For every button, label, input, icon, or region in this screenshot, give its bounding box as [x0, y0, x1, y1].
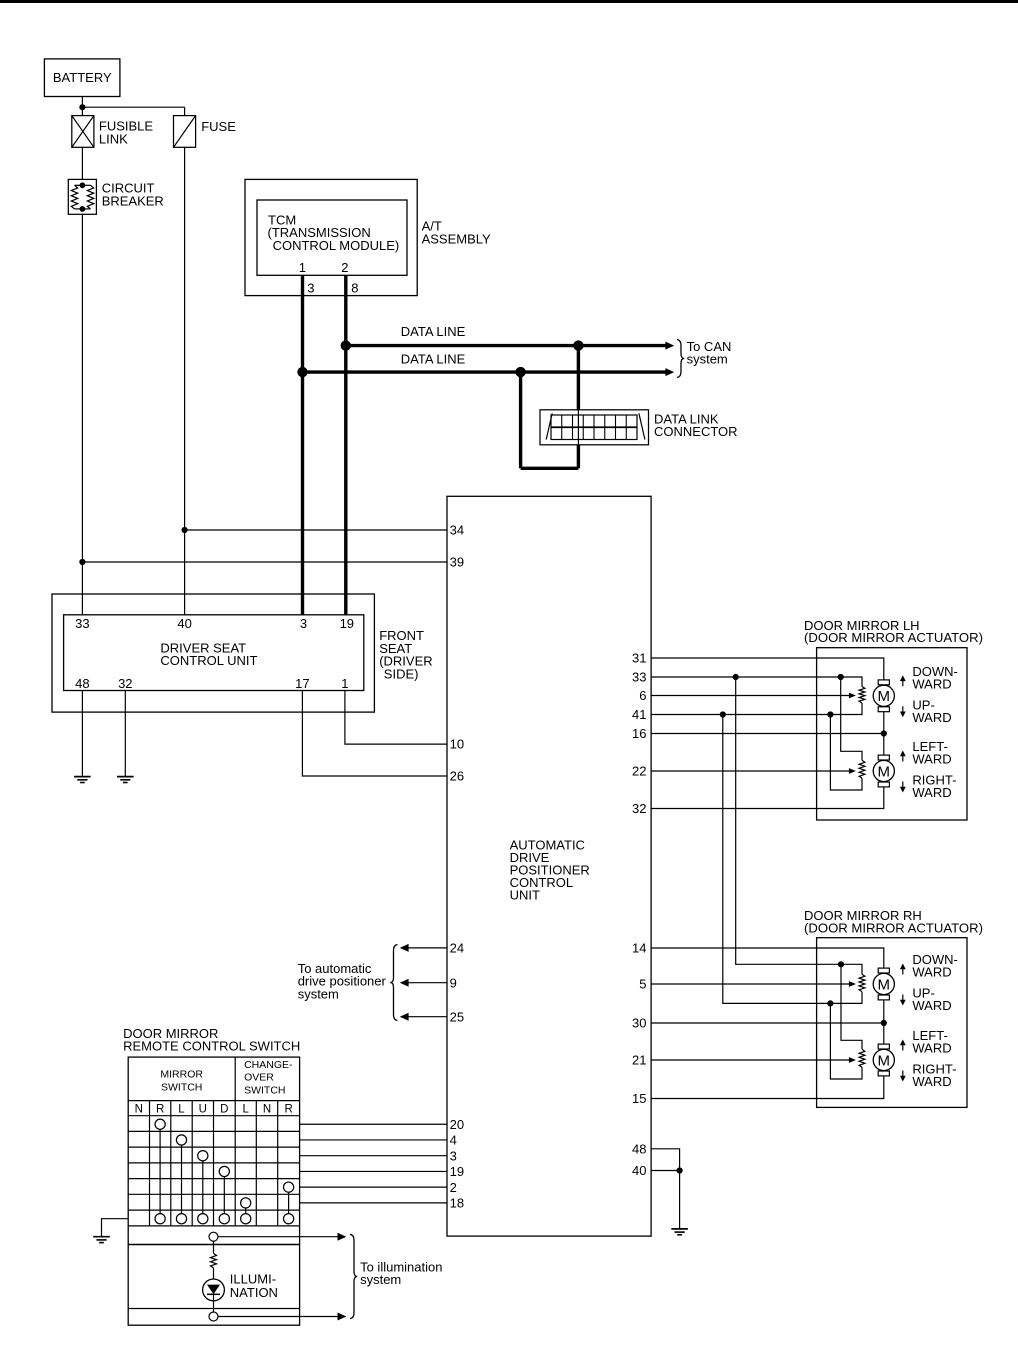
wire junction to fuse branch [82, 106, 184, 108]
svg-text:19: 19 [340, 616, 354, 631]
svg-text:R: R [156, 1104, 164, 1116]
wire switch row to ADP pin 2 [300, 1186, 447, 1188]
svg-text:BATTERY: BATTERY [53, 70, 112, 85]
TCM box [257, 200, 407, 275]
wire branch to RH resistor2 top [841, 964, 862, 1049]
svg-text:48: 48 [632, 1141, 646, 1156]
wire RH motor bus [883, 973, 885, 1023]
wire illumination top to resistor [213, 1241, 215, 1253]
switch contact R1 upper [155, 1119, 165, 1129]
door mirror remote control switch box [128, 1057, 299, 1325]
svg-text:BREAKER: BREAKER [102, 193, 164, 208]
switch header divider [234, 1057, 236, 1101]
wire switch row to ADP pin 4 [300, 1139, 447, 1141]
switch illumination bottom line [128, 1308, 299, 1310]
wire 41 branch to LH resistor2 bottom [830, 715, 862, 791]
svg-text:1: 1 [299, 260, 306, 275]
wire branch down to fuse [184, 107, 186, 115]
ground seat 32 [117, 776, 134, 778]
data line CAN-H wire [346, 344, 666, 347]
svg-text:9: 9 [450, 975, 457, 990]
wire ADP 21 wiper arrow [651, 1059, 849, 1061]
page top black bar [0, 0, 1018, 3]
to automatic drive positioner system brace [390, 945, 397, 1021]
switch contact R2 common [284, 1214, 294, 1224]
svg-text:1: 1 [341, 676, 348, 691]
wire ADP 15 to RH motor 2 bottom [651, 1076, 884, 1099]
wire 41 branch down to RH resistor bottom [723, 715, 862, 1004]
wire switch row to ADP pin 3 [300, 1155, 447, 1157]
resistor RH vertical pot [859, 974, 865, 992]
circuit breaker CB [68, 179, 96, 214]
svg-text:WARD: WARD [912, 1041, 951, 1056]
svg-text:LINK: LINK [99, 131, 128, 146]
arrow UP-WARD down [902, 706, 904, 713]
wire branch to RH resistor2 bottom [830, 1003, 862, 1079]
switch contact column D1 wire [223, 1171, 225, 1218]
svg-text:N: N [263, 1104, 271, 1116]
svg-text:U: U [199, 1104, 207, 1116]
switch contact D1 upper [219, 1166, 229, 1176]
junction 33 branch to LH resistor 2 [838, 674, 844, 680]
svg-text:WARD: WARD [912, 998, 951, 1013]
svg-text:REMOTE CONTROL SWITCH: REMOTE CONTROL SWITCH [123, 1039, 300, 1054]
resistor LH horizontal pot [859, 760, 865, 778]
wire to illumination system bottom arrow [300, 1316, 338, 1318]
junction CAN-H at TCM [341, 340, 351, 350]
wire illumination bottom to edge [218, 1316, 300, 1318]
svg-text:19: 19 [450, 1164, 464, 1179]
svg-text:WARD: WARD [912, 677, 951, 692]
svg-text:32: 32 [118, 676, 132, 691]
wire fusible link to circuit breaker [81, 147, 83, 179]
svg-text:N: N [135, 1104, 143, 1116]
svg-text:system: system [687, 352, 728, 367]
switch contact U1 upper [198, 1151, 208, 1161]
wire ADP 48 to ground node [651, 1149, 680, 1171]
arrow DOWN-WARD up [902, 968, 904, 975]
junction CAN-L at TCM [297, 367, 307, 377]
wire ADP 41 to LH resistor bottom [651, 703, 862, 715]
arrow LEFT-WARD up [902, 755, 904, 762]
wire switch row to ADP pin 18 [300, 1202, 447, 1204]
motor LH vertical [878, 680, 889, 685]
wire seat pin 17 to ADP pin 26 [302, 691, 447, 777]
arrow RIGHT-WARD down [902, 782, 904, 789]
switch contact L2 common [241, 1214, 251, 1224]
to illumination system brace [350, 1234, 357, 1318]
fusible link FL [72, 116, 94, 148]
svg-text:31: 31 [632, 651, 646, 666]
svg-text:ASSEMBLY: ASSEMBLY [422, 231, 491, 246]
junction RH resistor2 bottom branch [827, 1000, 833, 1006]
resistor RH horizontal pot [859, 1049, 865, 1067]
resistor illumination [211, 1253, 217, 1268]
junction battery feed [79, 104, 85, 110]
illumination bottom terminal [209, 1312, 218, 1321]
svg-text:2: 2 [450, 1180, 457, 1195]
wire seat pin 32 to ground [124, 691, 126, 777]
svg-text:L: L [178, 1104, 185, 1116]
wire ADP 6 wiper arrow [651, 695, 849, 697]
svg-text:15: 15 [632, 1091, 646, 1106]
wire 33 branch down to RH resistor top [736, 677, 862, 974]
switch contact L1 upper [176, 1135, 186, 1145]
illumination top terminal [209, 1232, 218, 1241]
svg-text:16: 16 [632, 726, 646, 741]
wire seat pin 48 to ground [81, 691, 83, 777]
svg-text:30: 30 [632, 1016, 646, 1031]
wire seat pin 1 to ADP pin 10 [345, 691, 447, 745]
svg-text:10: 10 [450, 737, 464, 752]
svg-text:21: 21 [632, 1053, 646, 1068]
junction node 34 [182, 527, 188, 533]
to CAN system brace [677, 340, 684, 378]
junction LH motor bus [881, 730, 887, 736]
wire circuit breaker down to node 39 [81, 214, 83, 562]
switch contact R1 common [155, 1214, 165, 1224]
switch contact D1 common [219, 1214, 229, 1224]
svg-text:DATA LINE: DATA LINE [401, 324, 466, 339]
switch contact R2 upper [284, 1182, 294, 1192]
svg-text:SIDE): SIDE) [384, 667, 419, 682]
junction ground node 40 [677, 1167, 683, 1173]
svg-text:WARD: WARD [912, 710, 951, 725]
switch contact column L1 wire [181, 1140, 183, 1219]
wire ADP 30 to RH motor bus [651, 1022, 884, 1024]
wire switch common to ground [102, 1219, 129, 1237]
junction RH resistor2 top branch [838, 961, 844, 967]
svg-text:WARD: WARD [912, 752, 951, 767]
svg-text:MIRROR: MIRROR [160, 1069, 203, 1081]
automatic drive positioner control unit box [447, 496, 651, 1236]
svg-text:8: 8 [351, 281, 358, 296]
wire ADP pin 24 out [408, 947, 447, 949]
svg-text:OVER: OVER [244, 1072, 274, 1084]
wire junction down to fusible link [81, 107, 83, 115]
svg-text:17: 17 [295, 676, 309, 691]
svg-text:FUSE: FUSE [201, 119, 236, 134]
svg-text:D: D [220, 1104, 228, 1116]
wire LED to bottom terminal [213, 1294, 215, 1312]
svg-text:L: L [242, 1104, 249, 1116]
wire TCM pin1 CAN-L down [301, 275, 304, 615]
svg-text:14: 14 [632, 941, 646, 956]
svg-text:3: 3 [307, 281, 314, 296]
wire node 39 down to seat pin 33 [81, 562, 83, 615]
svg-text:40: 40 [177, 616, 191, 631]
svg-text:system: system [298, 986, 339, 1001]
ground seat 48 [74, 776, 91, 778]
data line CAN-L wire [303, 370, 667, 373]
svg-text:3: 3 [300, 616, 307, 631]
svg-text:WARD: WARD [912, 1074, 951, 1089]
switch grid column lines [149, 1101, 151, 1226]
svg-text:22: 22 [632, 764, 646, 779]
wire ADP 5 wiper arrow [651, 983, 849, 985]
LED illumination lamp [203, 1279, 225, 1301]
svg-text:39: 39 [450, 555, 464, 570]
switch grid row lines [128, 1130, 299, 1132]
svg-text:M: M [878, 763, 891, 780]
wire ADP 31 to LH motor top [651, 658, 884, 680]
wire ADP 33 to LH resistor top [651, 677, 862, 687]
wire to illumination system top arrow [300, 1236, 338, 1238]
motor LH horizontal [878, 755, 889, 760]
svg-text:6: 6 [639, 688, 646, 703]
wire node 39 to ADP pin 39 [82, 561, 447, 563]
svg-text:M: M [878, 1052, 891, 1069]
wire fuse down to node 34 [184, 147, 186, 530]
svg-text:32: 32 [632, 801, 646, 816]
wire CAN-L loop to data link connector [519, 372, 522, 468]
svg-text:4: 4 [450, 1133, 457, 1148]
wire node 34 down to seat pin 40 [184, 530, 186, 615]
switch contact U1 common [198, 1214, 208, 1224]
svg-text:CONTROL MODULE): CONTROL MODULE) [273, 238, 400, 253]
front seat box [52, 594, 374, 712]
motor RH horizontal [878, 1044, 889, 1049]
svg-text:NATION: NATION [230, 1285, 278, 1300]
svg-text:25: 25 [450, 1009, 464, 1024]
A/T assembly box [245, 179, 417, 295]
svg-text:40: 40 [632, 1163, 646, 1178]
ground switch [93, 1236, 110, 1238]
switch header bottom line [128, 1100, 299, 1102]
svg-text:20: 20 [450, 1117, 464, 1132]
door mirror RH box [817, 938, 967, 1108]
svg-text:33: 33 [632, 670, 646, 685]
junction node 39 [79, 559, 85, 565]
svg-text:WARD: WARD [912, 785, 951, 800]
fuse F1 [174, 116, 196, 148]
arrow DOWN-WARD up [902, 680, 904, 687]
svg-text:SWITCH: SWITCH [244, 1084, 285, 1096]
svg-text:CHANGE-: CHANGE- [244, 1059, 293, 1071]
svg-text:48: 48 [75, 676, 89, 691]
svg-text:3: 3 [450, 1148, 457, 1163]
svg-text:(DOOR MIRROR ACTUATOR): (DOOR MIRROR ACTUATOR) [804, 920, 983, 935]
wire node 34 to ADP pin 34 [185, 529, 447, 531]
wire LH motor bus [883, 680, 885, 734]
wire ADP pin 25 out [408, 1016, 447, 1018]
ground ADP [671, 1228, 688, 1230]
svg-text:41: 41 [632, 707, 646, 722]
wire 33 branch to LH resistor2 top [841, 677, 862, 760]
wire ADP pin 9 out [408, 982, 447, 984]
wire resistor to LED [213, 1268, 215, 1285]
junction 41 branch to LH resistor 2 [827, 711, 833, 717]
svg-text:33: 33 [75, 616, 89, 631]
data link connector J1 [540, 410, 649, 445]
resistor LH vertical pot [859, 687, 865, 704]
svg-text:18: 18 [450, 1196, 464, 1211]
svg-text:26: 26 [450, 769, 464, 784]
wire ADP 14 to RH motor top [651, 948, 884, 968]
svg-text:2: 2 [341, 260, 348, 275]
arrow LEFT-WARD up [902, 1044, 904, 1051]
switch contact column R1 wire [159, 1124, 161, 1218]
switch contact L2 upper [241, 1198, 251, 1208]
svg-text:M: M [878, 976, 891, 993]
junction CAN-L to connector [515, 367, 525, 377]
wire ADP 22 wiper arrow [651, 770, 849, 772]
wire CAN-H to data link connector [577, 346, 580, 410]
switch illumination separator line [128, 1244, 299, 1246]
svg-text:M: M [878, 688, 891, 705]
svg-text:R: R [284, 1104, 292, 1116]
svg-text:DATA LINE: DATA LINE [401, 352, 466, 367]
wire through connector [577, 410, 579, 445]
battery box [44, 59, 120, 97]
wire ground node down [679, 1171, 681, 1229]
wire TCM pin2 CAN-H down [344, 275, 347, 615]
arrow UP-WARD down [902, 995, 904, 1002]
switch letters row line [128, 1115, 299, 1117]
switch contact L1 common [176, 1214, 186, 1224]
junction CAN-H to connector [573, 340, 583, 350]
wire illumination top to edge [218, 1236, 300, 1238]
svg-text:CONTROL UNIT: CONTROL UNIT [160, 653, 257, 668]
door mirror LH box [817, 648, 967, 820]
wire battery to junction [81, 97, 83, 108]
switch contact column R2 wire [288, 1187, 290, 1219]
svg-text:24: 24 [450, 941, 464, 956]
junction RH motor bus [881, 1020, 887, 1026]
svg-text:WARD: WARD [912, 965, 951, 980]
junction 33 branch to RH [733, 674, 739, 680]
wire ADP 16 to LH motor bus [651, 733, 884, 735]
driver seat control unit box [64, 615, 364, 691]
switch contact column U1 wire [202, 1156, 204, 1219]
wire switch row to ADP pin 19 [300, 1170, 447, 1172]
wire ADP 40 to ground node [651, 1170, 680, 1172]
svg-text:CONNECTOR: CONNECTOR [654, 424, 738, 439]
junction 41 branch to RH [720, 711, 726, 717]
wire switch row to ADP pin 20 [300, 1123, 447, 1125]
svg-text:UNIT: UNIT [510, 888, 540, 903]
svg-text:34: 34 [450, 523, 464, 538]
svg-text:5: 5 [639, 977, 646, 992]
switch contact column L2 wire [245, 1203, 247, 1219]
svg-text:(DOOR MIRROR ACTUATOR): (DOOR MIRROR ACTUATOR) [804, 630, 983, 645]
svg-text:system: system [360, 1272, 401, 1287]
wire ADP 32 to LH motor 2 bottom [651, 787, 884, 809]
svg-text:SWITCH: SWITCH [161, 1081, 202, 1093]
arrow RIGHT-WARD down [902, 1071, 904, 1078]
motor RH vertical [878, 968, 889, 973]
